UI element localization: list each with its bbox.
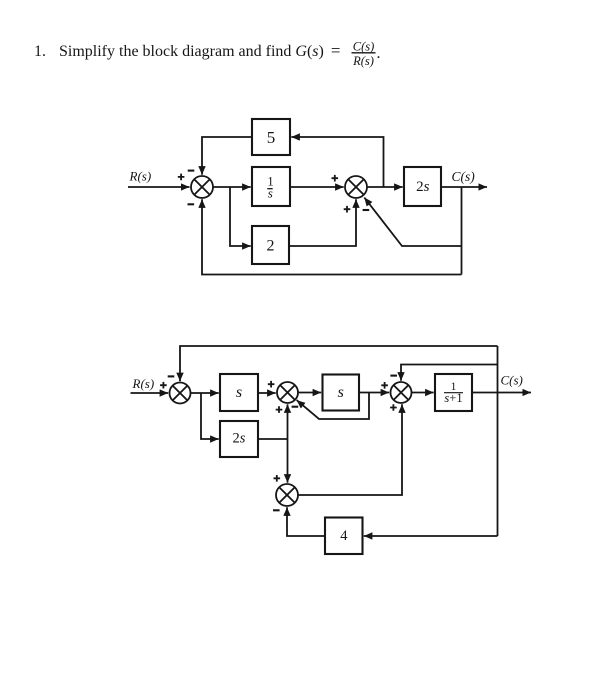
wire: block 4 output left then up into D bottom (287, 507, 325, 536)
title text (34, 40, 381, 68)
sign + at C bottom (390, 404, 397, 411)
wire: 1/s output to summer S2 (290, 186, 344, 188)
summer S1 (191, 176, 213, 198)
sign + at A left (160, 382, 167, 389)
svg-text:2s: 2s (233, 431, 246, 447)
svg-text:2s: 2s (416, 179, 430, 195)
wire: 2s output to C(s) (441, 186, 487, 188)
svg-text:5: 5 (267, 128, 276, 147)
sign - at D bottom (273, 509, 280, 511)
wire: branch down from node at (230,187) to block 2 (230, 187, 251, 246)
summer A (170, 383, 191, 404)
block gain 5 (252, 119, 290, 155)
wire: branch down from (201,393) to block 2s (201, 393, 219, 439)
svg-text:R(s): R(s) (352, 54, 374, 68)
svg-text:1.: 1. (34, 43, 46, 60)
svg-text:R(s): R(s) (132, 376, 155, 391)
svg-text:4: 4 (340, 528, 348, 544)
sign + at B left (268, 381, 275, 388)
svg-text:2: 2 (267, 238, 275, 255)
summer B (277, 382, 298, 403)
wire: S1 output to block 1/s (213, 186, 251, 188)
svg-text:s: s (268, 186, 273, 201)
block 1/(s+1) (435, 374, 472, 411)
block 2s (diagram 2) (220, 421, 258, 457)
sign + at S2 left (332, 175, 339, 182)
sign + at S1 left (178, 174, 185, 181)
wire: from output tap into block 4 (arrow left) (364, 535, 498, 537)
fraction bar of C(s)/R(s) (352, 52, 376, 54)
wire: R(s) input into summer A (131, 392, 169, 394)
wire: block 2 output right then up into S2 bottom (289, 199, 356, 246)
block G=1/s (252, 167, 290, 206)
svg-text:Simplify the block diagram and: Simplify the block diagram and find G(s)… (59, 41, 340, 60)
wire: R(s) input into summer S1 (128, 186, 190, 188)
wire: S2 output to block 2s (367, 186, 403, 188)
wire: bottom feedback left and up into S1 bottom (202, 199, 462, 274)
wire: 2s output right to vertical junction (258, 438, 288, 440)
wire: tap up from (383.5,187) to 5 block feedback, arrow into 5 right edge (291, 137, 383, 187)
block s (upper left) (220, 374, 258, 411)
svg-text:.: . (377, 45, 381, 62)
wire: output tap vertical from top line down to 4-block line (497, 346, 499, 536)
wire: tap at (369,392.5) down, left, diagonal into B lower right (297, 393, 369, 420)
block gain 2 (252, 226, 289, 264)
wire: feedback line into C top (401, 365, 498, 381)
wire: block s1 output to summer B (258, 392, 276, 394)
sign + at S2 bottom (344, 206, 351, 213)
wire: output tap down from (462,187) (461, 187, 463, 275)
wire: outer feedback top line into A top (180, 346, 498, 381)
summer D (276, 484, 298, 506)
wire: D output right then up into C bottom (298, 404, 402, 495)
block gain 4 (325, 518, 363, 555)
wire: A output to block s1 (191, 392, 219, 394)
sign - at C top (390, 375, 397, 377)
svg-text:s: s (338, 384, 344, 401)
block gain 2s (404, 167, 441, 206)
svg-text:s: s (236, 384, 242, 401)
svg-text:C(s): C(s) (353, 40, 375, 54)
sign + at D top (274, 475, 281, 482)
wire: 1/(s+1) output to C(s) (472, 392, 531, 394)
sign - at S2 bottom right (363, 209, 370, 211)
svg-text:C(s): C(s) (452, 169, 476, 184)
sign + at B bottom left (276, 406, 283, 413)
wire: B output to block s2 (298, 392, 321, 394)
sign - at A top (168, 375, 175, 377)
wire: junction down into summer D top (287, 439, 289, 483)
summer C (391, 382, 412, 403)
sign + at C left (381, 382, 388, 389)
svg-text:C(s): C(s) (501, 373, 523, 388)
block s (middle) (323, 375, 360, 411)
wire: block s2 output to summer C (359, 392, 389, 394)
svg-text:R(s): R(s) (129, 169, 152, 184)
sign - at S1 top (188, 170, 195, 172)
wire: 5 block output left then down into S1 top (202, 137, 252, 175)
wire: diagonal feedback from (462,245.5) into S2 lower-right (364, 198, 461, 247)
summer S2 (345, 176, 367, 198)
wire: junction up into B bottom (287, 404, 289, 439)
sign - at B bottom right (292, 406, 299, 408)
sign - at S1 bottom (188, 203, 195, 205)
wire: C output to block 1/(s+1) (412, 392, 434, 394)
